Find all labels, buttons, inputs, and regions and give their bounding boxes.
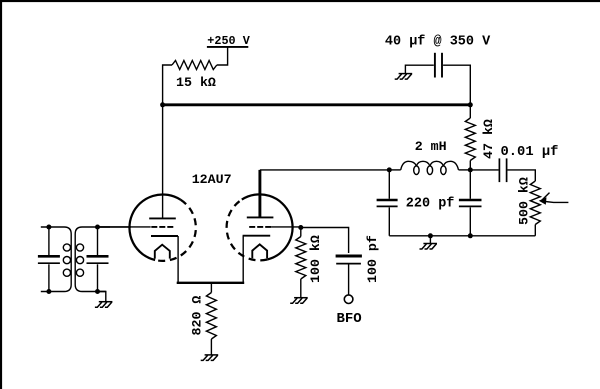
wire grid node to 100pf (301, 228, 349, 254)
tube V2 right triode: envelope solid arc (242, 194, 293, 259)
tube V2 cathode bar (243, 235, 271, 237)
potentiometer wiper arrow (539, 193, 569, 205)
junction tank bottom ground (428, 233, 433, 238)
junction tank top left (387, 167, 392, 172)
tube V1 cathode bar (151, 235, 178, 237)
tube V2 right triode: envelope dashed arc (227, 200, 268, 261)
junction secondary bottom (95, 289, 100, 294)
wire secondary top to V1 grid (98, 226, 132, 228)
wire V2 plate to tank top rail (260, 169, 389, 171)
tube V2 grid (dashed) (247, 226, 271, 228)
capacitor 100 pf (336, 256, 362, 264)
junction tank bottom right (468, 233, 473, 238)
wire V1 plate lead up to B+ (162, 105, 164, 219)
svg-text:2 mH: 2 mH (415, 139, 447, 154)
ground at 40uf (395, 74, 413, 80)
svg-text:47 kΩ: 47 kΩ (481, 119, 496, 159)
junction V2 grid node (298, 225, 303, 230)
junction node B+ right (468, 102, 473, 107)
tube V1 heater tent (155, 245, 170, 259)
transformer T1 primary winding (left) (41, 227, 71, 292)
wire resistor left lead down to B+ node (163, 65, 172, 105)
wire to 0.01 cap (470, 169, 498, 171)
svg-text:100 pf: 100 pf (365, 235, 380, 283)
tube V1 plate bar (149, 217, 176, 219)
wire 47k top lead (469, 105, 471, 118)
svg-text:220 pf: 220 pf (406, 197, 455, 212)
resistor 820 Ohm (206, 293, 216, 340)
wire 0.01 cap to pot top (508, 170, 536, 181)
wire V2 cathode lead down (242, 236, 244, 283)
wire to tank ground (429, 236, 431, 244)
wire pot bottom lead (534, 225, 536, 236)
wire V1 cathode lead down (177, 236, 179, 283)
terminal BFO (344, 295, 353, 304)
tube V1 grid (dashed) (151, 226, 174, 228)
capacitor across secondary (87, 227, 109, 292)
node +250V supply terminal (207, 34, 251, 48)
wire 100k top lead (300, 228, 302, 237)
wire 100k bottom lead (300, 279, 302, 298)
wire V2 plate lead up (bold) (258, 170, 261, 218)
transformer T1 secondary winding (right) (75, 227, 110, 292)
ground at tank (420, 244, 438, 250)
capacitor 220 pf left (377, 170, 398, 236)
tube V1 left triode: envelope solid arc (129, 194, 180, 260)
svg-text:820 Ω: 820 Ω (190, 296, 205, 336)
svg-text:100 kΩ: 100 kΩ (308, 235, 323, 283)
potentiometer 500 kOhm (530, 181, 540, 225)
wire 100pf to BFO terminal (348, 265, 350, 295)
svg-text:BFO: BFO (337, 311, 362, 327)
junction secondary top (95, 225, 100, 230)
capacitor 40 uf filter (435, 53, 442, 78)
svg-text:0.01 μf: 0.01 μf (501, 144, 559, 160)
resistor 15 kOhm (172, 61, 217, 70)
resistor 100 kOhm (296, 237, 306, 280)
svg-text:12AU7: 12AU7 (192, 172, 232, 187)
junction node B+ left (160, 102, 165, 107)
capacitor across primary (38, 227, 60, 292)
wire V1 grid lead from transformer (98, 226, 151, 228)
wire 40uf left lead (405, 65, 433, 73)
wire 47k bottom lead (469, 161, 471, 170)
wire B+ bus (bold) (163, 103, 471, 106)
tube V2 heater tent (252, 244, 267, 258)
junction tank top right (468, 167, 473, 172)
junction primary bottom (46, 289, 51, 294)
wire from +250V terminal down to resistor (217, 47, 228, 65)
ground at 820 (201, 355, 219, 361)
svg-text:40 μf @ 350 V: 40 μf @ 350 V (385, 35, 491, 50)
svg-text:500 kΩ: 500 kΩ (517, 177, 532, 225)
wire 820 bottom lead (210, 339, 212, 355)
wire tank bottom rail (389, 235, 535, 237)
tube V1 left triode: envelope dashed arc (155, 200, 196, 261)
ground at 100k (290, 298, 308, 304)
ground at transformer (95, 302, 113, 308)
tube V2 plate bar (247, 216, 274, 218)
capacitor 0.01 uf (499, 158, 506, 182)
junction primary top (46, 225, 51, 230)
wire secondary bottom to ground (98, 292, 106, 302)
resistor 47 kOhm (465, 118, 475, 161)
wire V2 grid lead to right (271, 226, 301, 228)
wire 820 top lead (210, 283, 212, 293)
wire cathode join bar (177, 282, 245, 284)
capacitor 220 pf right (459, 170, 482, 236)
inductor 2 mH (389, 161, 470, 174)
svg-text:15 kΩ: 15 kΩ (176, 75, 216, 90)
wire 40uf right lead to B+ bus (443, 65, 470, 105)
